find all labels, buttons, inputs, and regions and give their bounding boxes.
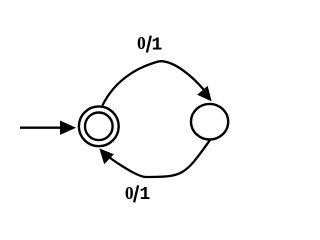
svg-text:0: 0 [137,33,146,53]
svg-text:0: 0 [125,183,134,203]
svg-text:1: 1 [140,185,151,205]
svg-text:1: 1 [152,35,163,55]
